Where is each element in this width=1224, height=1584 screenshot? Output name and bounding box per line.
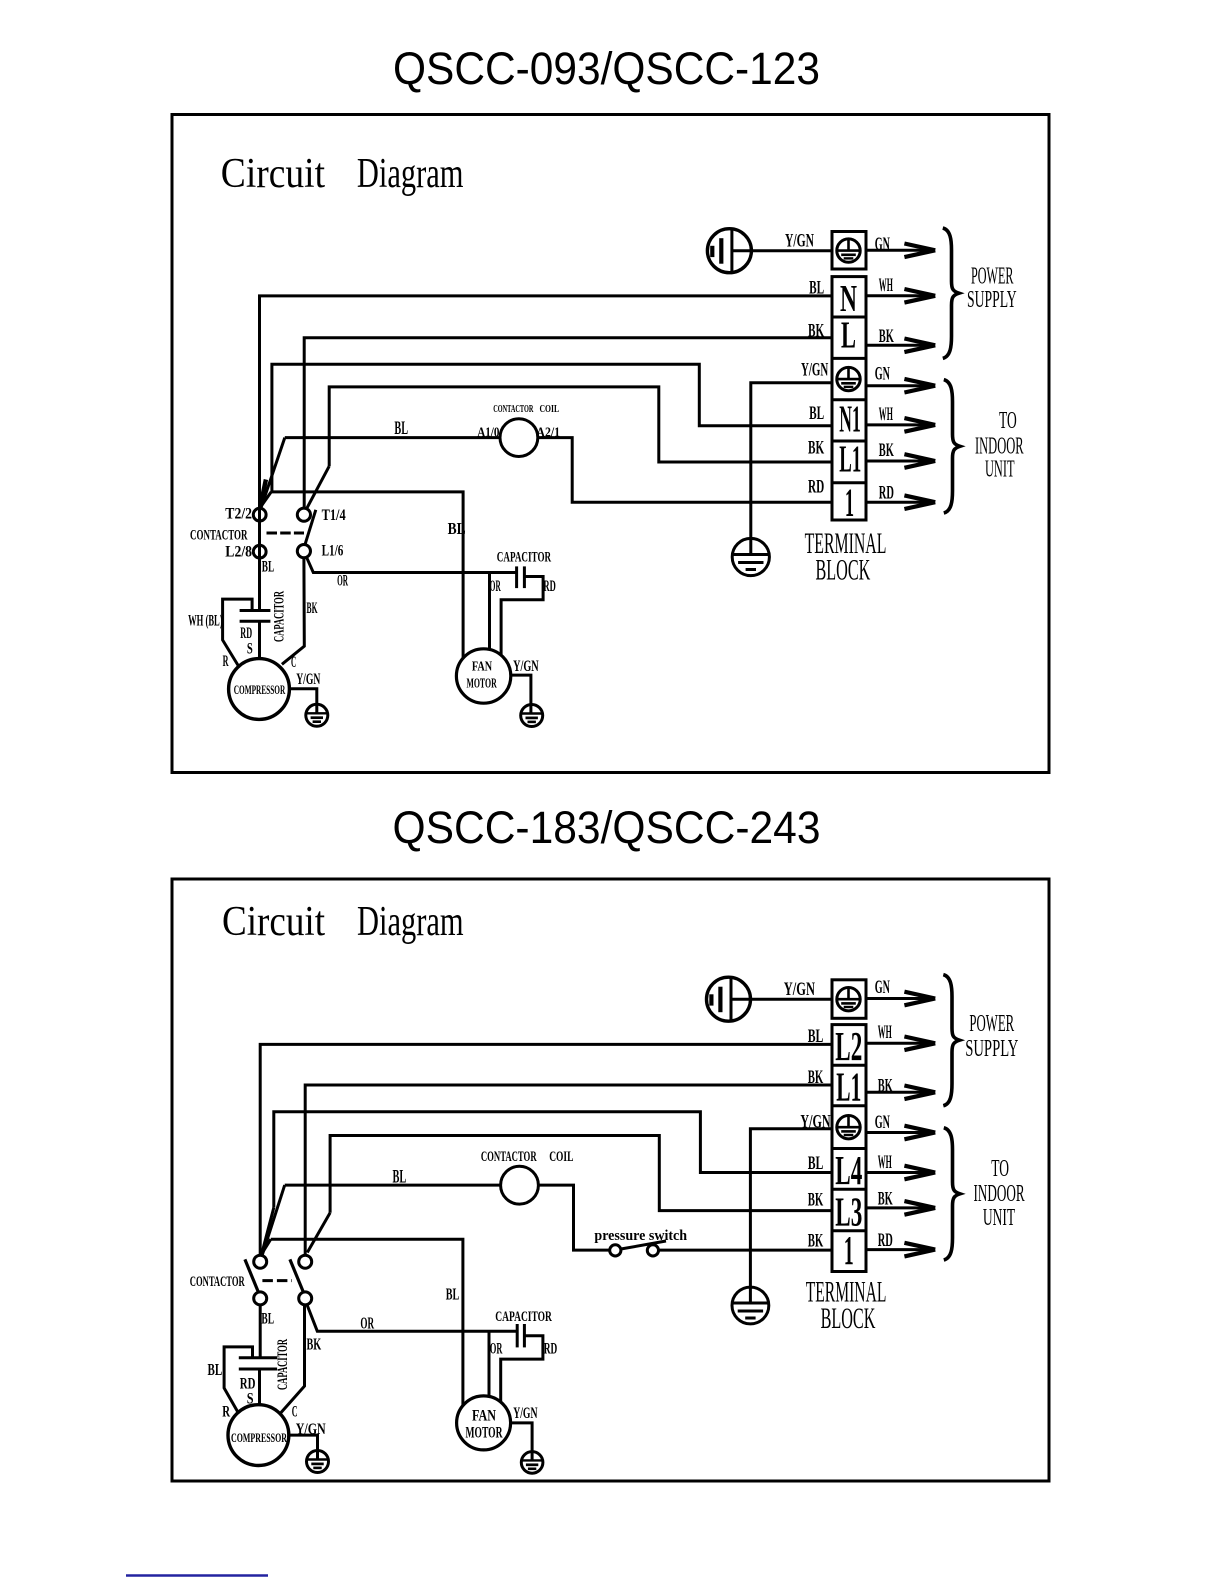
ground symbol in TB1 ground cell: [837, 239, 860, 262]
terminal block TB1 ground cell: [832, 232, 866, 270]
svg-text:L1: L1: [836, 1064, 861, 1110]
earth ground at compressor 2: [307, 1451, 329, 1473]
label BL at terminal L4: [808, 1153, 824, 1174]
svg-text:Y/GN: Y/GN: [801, 360, 828, 381]
svg-text:Y/GN: Y/GN: [513, 658, 539, 675]
label BL at terminal N1: [809, 403, 824, 424]
label T1/4: [322, 507, 346, 524]
svg-text:CAPACITOR: CAPACITOR: [275, 1339, 291, 1390]
label BL at terminal N: [809, 278, 824, 299]
svg-text:OR: OR: [490, 1341, 503, 1358]
svg-text:BK: BK: [307, 1335, 322, 1354]
svg-text:Y/GN: Y/GN: [784, 979, 815, 1000]
svg-text:Y/GN: Y/GN: [785, 231, 814, 252]
svg-text:L1: L1: [839, 438, 861, 480]
svg-text:RD: RD: [879, 483, 894, 504]
svg-text:1: 1: [844, 1227, 854, 1273]
svg-text:N1: N1: [839, 399, 861, 441]
fan motor M2: [456, 649, 510, 703]
power plug P1: [707, 229, 751, 273]
svg-text:GN: GN: [875, 234, 890, 255]
wire BL from pole1 to fan motor 2: [271, 1239, 463, 1406]
wire junction diagonal L3 wire to pole2: [307, 1213, 330, 1253]
contactor K2 contact pole1 top: [254, 1255, 267, 1268]
wire BL hook to compressor R 2: [224, 1347, 252, 1413]
label TO INDOOR UNIT 1: [975, 408, 1024, 483]
svg-text:RD: RD: [808, 477, 824, 498]
label RD at terminal 1: [808, 477, 824, 498]
svg-text:pressure switch: pressure switch: [594, 1228, 687, 1244]
label RD at fan capacitor 2: [544, 1341, 558, 1358]
label T2/2: [225, 505, 252, 522]
border box diagram 1: [172, 115, 1049, 773]
capacitor C4 (fan run 2) plates: [517, 1324, 524, 1347]
contactor K1 pole2 blade: [305, 510, 316, 545]
terminal N1: [839, 399, 861, 441]
label TERMINAL BLOCK TB2: [806, 1276, 887, 1336]
svg-text:CAPACITOR: CAPACITOR: [272, 591, 288, 642]
contactor K2 contact pole1 bottom: [254, 1292, 267, 1305]
terminal 1 TB2: [844, 1227, 854, 1273]
svg-text:SUPPLY: SUPPLY: [967, 287, 1017, 313]
ground symbol in TB2 mid cell: [837, 1116, 860, 1139]
heading Circuit Diagram 2: [222, 899, 464, 945]
svg-text:CONTACTOR: CONTACTOR: [190, 1274, 245, 1290]
svg-text:CAPACITOR: CAPACITOR: [497, 550, 551, 566]
svg-text:BL: BL: [261, 1311, 274, 1328]
contactor K2 pole1 blade: [245, 1259, 258, 1291]
svg-text:POWER: POWER: [971, 264, 1014, 290]
terminal N: [840, 278, 857, 320]
svg-text:QSCC-093/QSCC-123: QSCC-093/QSCC-123: [393, 43, 820, 94]
svg-text:A1/0: A1/0: [477, 425, 499, 440]
wire capacitor to compressor S: [258, 621, 261, 658]
svg-text:BK: BK: [808, 320, 824, 341]
wire RD fan capacitor2 to fan motor: [501, 1336, 543, 1402]
wire BK from L1/6 to compressor C: [282, 558, 304, 664]
label Y/GN fan 2: [513, 1405, 538, 1422]
pin label A2/1: [536, 425, 560, 440]
svg-text:Y/GN: Y/GN: [513, 1405, 538, 1422]
svg-text:R: R: [223, 653, 229, 670]
wire OR from pole2 to fan capacitor 2: [307, 1304, 518, 1331]
wire Y/GN plug2 to ground terminal: [731, 998, 832, 1001]
label Y/GN fan: [513, 658, 539, 675]
svg-text:BLOCK: BLOCK: [816, 554, 871, 587]
label L1/6: [322, 543, 344, 560]
capacitor C1 (compressor run) plates: [240, 611, 271, 622]
svg-text:BL: BL: [809, 403, 824, 424]
label TERMINAL BLOCK TB1: [805, 527, 887, 587]
svg-text:MOTOR: MOTOR: [466, 677, 497, 692]
label RD 2: [240, 1376, 256, 1393]
label Y/GN at TB2 mid ground: [800, 1112, 830, 1133]
earth ground symbol E2: [732, 1287, 769, 1324]
svg-text:L: L: [841, 315, 856, 357]
wire OR from L1/6 to fan capacitor: [306, 557, 516, 573]
label BK at terminal L: [808, 320, 824, 341]
svg-text:BK: BK: [879, 440, 894, 461]
label pressure switch: [594, 1228, 687, 1244]
pressure switch contact right: [647, 1245, 658, 1256]
arrow BK power 2: [866, 1086, 935, 1100]
wire junction diagonal coil wire to pole1: [262, 1185, 285, 1255]
wire junction diagonal fan wire to T2/2: [260, 492, 271, 507]
svg-text:GN: GN: [875, 1112, 890, 1133]
label WH (BL): [188, 613, 223, 630]
capacitor C3 (compressor run 2) plates: [239, 1358, 277, 1369]
svg-text:Circuit: Circuit: [222, 899, 325, 945]
label CAPACITOR vertical 2: [275, 1339, 291, 1390]
contactor K1 pole1 blade: [260, 480, 266, 508]
border box diagram 2: [172, 879, 1049, 1481]
earth ground at fan motor: [521, 705, 543, 727]
svg-text:BL: BL: [808, 1026, 824, 1047]
svg-text:BK: BK: [808, 1190, 824, 1211]
label CAPACITOR vertical: [272, 591, 288, 642]
arrow WH indoor: [866, 418, 935, 432]
wire capacitor3 to compressor S: [258, 1369, 261, 1405]
svg-text:BL: BL: [448, 519, 466, 538]
arrow BK indoor 2: [866, 1201, 935, 1215]
svg-text:L2: L2: [835, 1023, 862, 1069]
svg-text:WH: WH: [878, 1152, 892, 1173]
label OR at fan capacitor 2: [490, 1341, 503, 1358]
terminal block TB2 ground cell: [832, 980, 866, 1019]
terminal L1: [839, 438, 861, 480]
wire BK from contactor T1/4 to terminal L: [304, 338, 832, 508]
capacitor C2 (fan run) plates: [517, 566, 525, 588]
svg-text:OR: OR: [360, 1314, 374, 1333]
svg-text:SUPPLY: SUPPLY: [965, 1036, 1018, 1062]
arrow GN power: [866, 244, 935, 258]
contactor K1 linkage dashed line: [267, 532, 305, 535]
fan motor M4: [457, 1396, 511, 1450]
svg-text:BK: BK: [307, 600, 318, 617]
label OR at fan capacitor: [490, 578, 501, 595]
label BL fan feed: [448, 519, 466, 538]
terminal block TB1 body: [832, 277, 866, 520]
svg-text:C: C: [292, 1404, 298, 1421]
terminal L: [841, 315, 856, 357]
label POWER SUPPLY 2: [965, 1011, 1018, 1062]
svg-text:BL: BL: [394, 418, 408, 439]
label Y/GN: [785, 231, 814, 252]
arrow WH indoor 2: [866, 1166, 935, 1180]
wire BK from pole2 to compressor C 2: [280, 1305, 304, 1414]
svg-text:BL: BL: [208, 1360, 223, 1379]
terminal L1 TB2: [836, 1064, 861, 1110]
label BK at terminal 1 TB2: [808, 1231, 824, 1252]
ground symbol in TB1 mid cell: [837, 367, 860, 390]
svg-text:BL: BL: [809, 278, 824, 299]
arrow GN indoor 2: [866, 1126, 935, 1140]
svg-text:BK: BK: [878, 1189, 893, 1210]
label BL on coil wire 2: [393, 1167, 407, 1188]
label BK at terminal L1 TB2: [808, 1067, 824, 1088]
svg-text:BK: BK: [808, 1231, 824, 1252]
wire OR drop to fan motor: [488, 573, 491, 651]
wire BL from contactor pole1 to terminal L2: [260, 1044, 832, 1255]
label RD: [240, 625, 252, 642]
svg-text:L2/8: L2/8: [225, 544, 252, 561]
svg-text:MOTOR: MOTOR: [466, 1424, 503, 1441]
contactor coil K2: [501, 1166, 539, 1204]
svg-text:CONTACTOR: CONTACTOR: [493, 403, 534, 415]
wire BK from contactor T1/4 to terminal L1: [329, 387, 832, 466]
svg-text:INDOOR: INDOOR: [974, 1181, 1025, 1207]
compressor M1: [229, 659, 290, 720]
wire pressure switch to terminal 1: [659, 1249, 833, 1252]
svg-text:BK: BK: [808, 1067, 824, 1088]
label BK at terminal L1: [808, 437, 824, 458]
terminal L3: [835, 1189, 862, 1235]
label L2/8: [225, 544, 252, 561]
wire diagonal from L1-rect to T1/4: [307, 466, 330, 509]
label Y/GN plug2: [784, 979, 815, 1000]
contactor K1 contact L2/8: [253, 545, 266, 558]
wire BK from contactor to terminal L3: [330, 1136, 832, 1213]
pressure switch contact left: [610, 1245, 621, 1256]
svg-text:T1/4: T1/4: [322, 507, 346, 524]
svg-text:BK: BK: [808, 437, 824, 458]
svg-text:CAPACITOR: CAPACITOR: [495, 1309, 552, 1325]
svg-text:TO: TO: [991, 1156, 1009, 1182]
labels right of TB1: [875, 234, 894, 504]
ground symbol in TB2 ground cell: [837, 988, 860, 1011]
contactor K2 contact pole2 top: [299, 1255, 312, 1268]
wire BL to contactor coil A1/0: [285, 436, 500, 439]
svg-text:WH: WH: [878, 1022, 892, 1043]
label BL on coil wire: [394, 418, 408, 439]
wire RD fan capacitor to fan motor: [501, 577, 543, 656]
label Y/GN compressor: [296, 671, 320, 688]
arrow BK power: [866, 339, 935, 353]
pin label A1/0: [477, 425, 499, 440]
contactor K2 linkage dashed line: [262, 1279, 292, 1282]
wire BL to contactor coil 2: [285, 1184, 501, 1187]
svg-text:BL: BL: [808, 1153, 824, 1174]
label CONTACTOR COIL: [493, 403, 559, 415]
label OR near contactor: [337, 573, 348, 590]
svg-text:OR: OR: [337, 573, 348, 590]
svg-text:Diagram: Diagram: [357, 151, 464, 197]
earth ground symbol E1: [732, 538, 769, 575]
label R 2: [222, 1404, 230, 1421]
svg-text:TO: TO: [999, 408, 1017, 434]
svg-text:RD: RD: [878, 1230, 893, 1251]
label CONTACTOR K1: [190, 528, 248, 544]
wire pole1 bottom to capacitor 3: [259, 1305, 262, 1358]
label BK near compressor 2: [307, 1335, 322, 1354]
svg-text:BL: BL: [446, 1285, 460, 1304]
wire Y/GN plug to ground terminal: [732, 249, 832, 252]
brace power supply 1: [943, 228, 959, 358]
wire Y/GN fan to earth: [511, 675, 531, 713]
svg-text:Circuit: Circuit: [221, 151, 325, 197]
svg-text:POWER: POWER: [969, 1011, 1014, 1037]
svg-text:QSCC-183/QSCC-243: QSCC-183/QSCC-243: [393, 802, 821, 853]
svg-text:COIL: COIL: [549, 1149, 573, 1165]
svg-text:Diagram: Diagram: [357, 899, 464, 945]
svg-text:FAN: FAN: [472, 1407, 496, 1424]
wire junction diagonal fan wire to pole1: [261, 1239, 271, 1255]
wire BL from contactor to terminal N1: [272, 364, 832, 492]
terminal L4: [835, 1147, 862, 1193]
label BL at terminal L2: [808, 1026, 824, 1047]
pressure switch blade: [622, 1241, 666, 1249]
label S 2: [247, 1391, 254, 1408]
svg-text:WH: WH: [879, 275, 893, 296]
contactor K1 contact L1/6: [297, 545, 310, 558]
label POWER SUPPLY 1: [967, 264, 1017, 313]
arrow WH power 2: [866, 1037, 935, 1051]
label BL fan feed 2: [446, 1285, 460, 1304]
wire Y/GN to TB2 mid ground cell: [750, 1129, 832, 1303]
brace power supply 2: [943, 975, 959, 1106]
terminal block TB2 body: [832, 1025, 866, 1272]
svg-text:BK: BK: [879, 326, 894, 347]
svg-text:S: S: [247, 641, 253, 658]
svg-text:C: C: [291, 654, 296, 671]
svg-text:T2/2: T2/2: [225, 505, 252, 522]
svg-text:BLOCK: BLOCK: [821, 1302, 876, 1335]
wire BL from T2/2 to fan motor: [271, 492, 463, 659]
svg-text:COMPRESSOR: COMPRESSOR: [234, 682, 286, 697]
arrow RD indoor 2: [866, 1243, 935, 1257]
svg-text:BL: BL: [393, 1167, 407, 1188]
earth ground at compressor: [306, 704, 328, 726]
svg-text:BK: BK: [878, 1075, 893, 1096]
label S: [247, 641, 253, 658]
label OR near contactor 2: [360, 1314, 374, 1333]
svg-text:COIL: COIL: [540, 403, 560, 415]
svg-text:R: R: [222, 1404, 230, 1421]
wire OR drop to fan motor 2: [488, 1331, 491, 1397]
label CONTACTOR COIL 2: [481, 1149, 574, 1165]
wire junction diagonal L4 wire to pole1: [262, 1208, 274, 1253]
svg-text:UNIT: UNIT: [985, 457, 1015, 483]
svg-text:Y/GN: Y/GN: [296, 671, 320, 688]
heading Circuit Diagram 1: [221, 151, 464, 197]
wire Y/GN compressor to earth: [289, 689, 316, 714]
svg-text:Y/GN: Y/GN: [296, 1421, 326, 1438]
svg-text:INDOOR: INDOOR: [975, 433, 1024, 459]
label BL below pole1: [261, 1311, 274, 1328]
labels right of TB2: [875, 977, 893, 1251]
contactor K1 contact T2/2: [253, 508, 266, 521]
terminal L2: [835, 1023, 862, 1069]
wire Y/GN compressor2 to earth: [289, 1435, 318, 1459]
arrow WH power: [866, 289, 935, 303]
wire Y/GN fan2 to earth: [511, 1423, 532, 1461]
brace to indoor unit 2: [944, 1128, 960, 1260]
label BL below L2/8: [262, 559, 274, 576]
wire WH(BL) hook to compressor R: [223, 599, 253, 666]
wire Y/GN to TB1 mid ground cell: [751, 383, 832, 555]
svg-text:FAN: FAN: [472, 659, 492, 674]
arrow RD indoor: [866, 495, 935, 509]
wire BL from contactor to terminal L4: [274, 1112, 832, 1208]
label BK at terminal L3: [808, 1190, 824, 1211]
label CAPACITOR fan 2: [495, 1309, 552, 1325]
label BL hook: [208, 1360, 223, 1379]
arrow BK indoor: [866, 454, 935, 468]
svg-text:COMPRESSOR: COMPRESSOR: [231, 1430, 287, 1445]
label Y/GN at TB1 mid ground: [801, 360, 828, 381]
svg-text:A2/1: A2/1: [536, 425, 560, 440]
label R: [223, 653, 229, 670]
svg-text:OR: OR: [490, 578, 501, 595]
terminal 1: [845, 480, 854, 525]
arrow GN indoor: [866, 379, 935, 393]
svg-text:CONTACTOR: CONTACTOR: [190, 528, 248, 544]
earth ground at fan motor 2: [521, 1452, 543, 1474]
label CONTACTOR K2: [190, 1274, 245, 1290]
contactor coil K1: [500, 419, 538, 457]
label CAPACITOR fan: [497, 550, 551, 566]
wire RD from coil A2/1 to terminal 1: [538, 438, 832, 503]
label C 2: [292, 1404, 298, 1421]
wire coil2 to pressure switch: [538, 1185, 609, 1250]
label RD at fan capacitor: [543, 578, 555, 595]
svg-text:GN: GN: [875, 364, 890, 385]
svg-text:RD: RD: [543, 578, 555, 595]
svg-text:WH (BL): WH (BL): [188, 613, 223, 630]
label BK near compressor: [307, 600, 318, 617]
svg-text:WH: WH: [879, 404, 893, 425]
brace to indoor unit 1: [944, 380, 960, 513]
label TO INDOOR UNIT 2: [974, 1156, 1025, 1231]
svg-text:Y/GN: Y/GN: [800, 1112, 830, 1133]
label C: [291, 654, 296, 671]
svg-text:UNIT: UNIT: [983, 1205, 1015, 1231]
svg-text:L1/6: L1/6: [322, 543, 344, 560]
wire BL from contactor T2/2 to terminal N: [260, 296, 833, 611]
svg-text:GN: GN: [875, 977, 890, 998]
svg-text:L4: L4: [835, 1147, 862, 1193]
wire junction diagonal coil wire to T2/2: [261, 438, 285, 508]
svg-text:1: 1: [845, 480, 854, 525]
blue underline mark bottom left: [126, 1574, 268, 1577]
contactor K1 contact T1/4: [297, 508, 310, 521]
compressor M3: [228, 1405, 289, 1466]
svg-text:BL: BL: [262, 559, 274, 576]
power plug P2: [707, 977, 751, 1021]
contactor K2 pole2 blade: [290, 1259, 303, 1291]
wire BK from contactor pole2 to terminal L1: [305, 1085, 832, 1255]
label Y/GN compressor 2: [296, 1421, 326, 1438]
arrow GN power 2: [866, 992, 935, 1006]
contactor K2 contact pole2 bottom: [299, 1292, 312, 1305]
svg-text:CONTACTOR: CONTACTOR: [481, 1149, 537, 1165]
svg-text:RD: RD: [544, 1341, 558, 1358]
